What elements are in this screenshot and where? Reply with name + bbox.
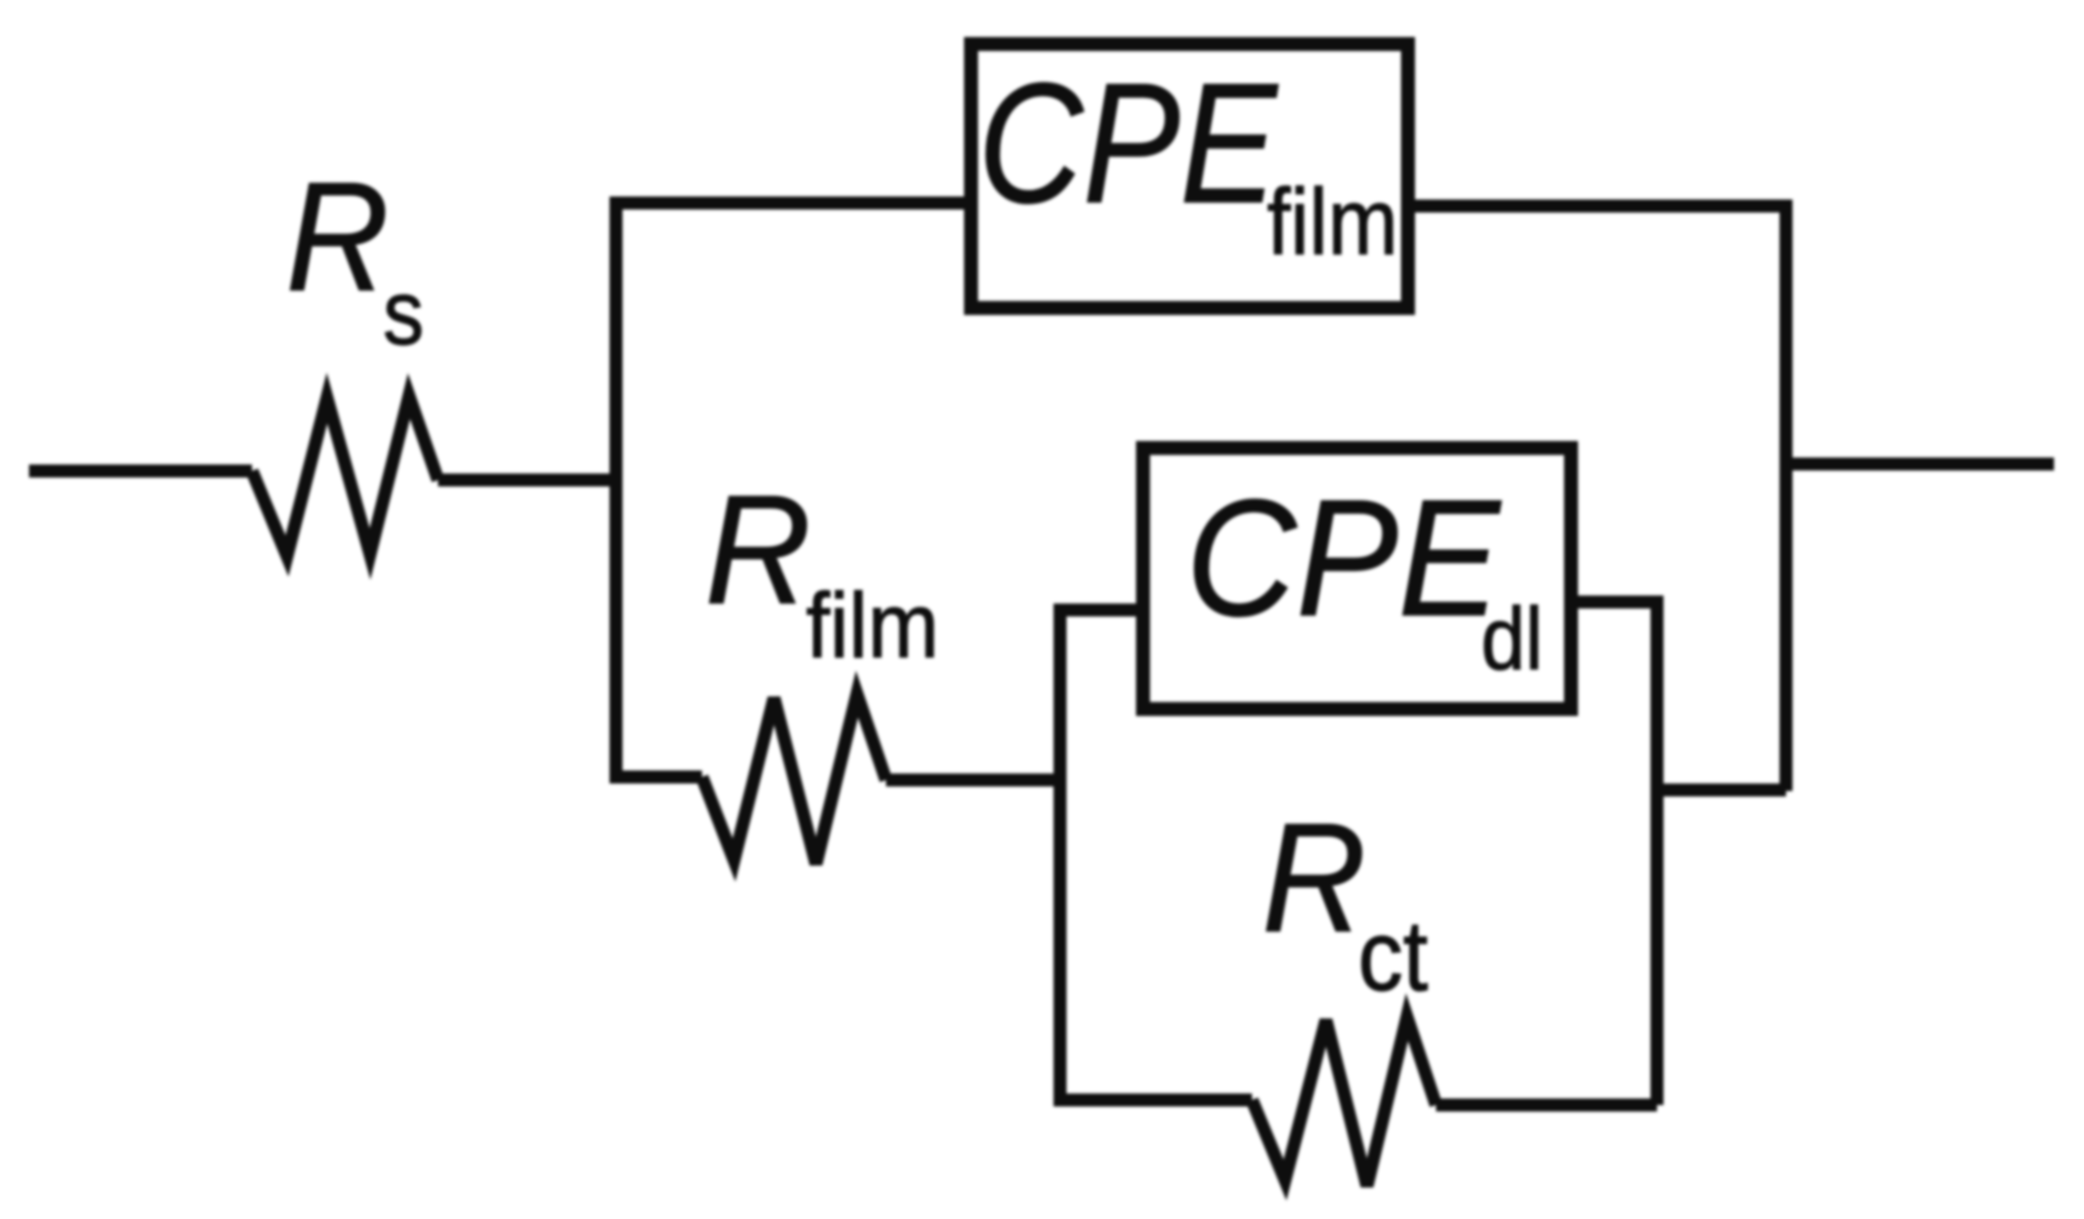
- wire node A left vertical with top and bottom branch stubs: [616, 203, 972, 777]
- resistor R3 Rct zigzag: [1252, 1017, 1436, 1186]
- svg-text:R: R: [705, 463, 811, 636]
- wire CPEdl right to inner right vertical: [1570, 602, 1657, 1105]
- svg-text:CPE: CPE: [978, 48, 1279, 239]
- svg-text:dl: dl: [1481, 589, 1543, 688]
- svg-text:film: film: [806, 575, 939, 677]
- resistor R1 Rs zigzag: [252, 396, 438, 556]
- wire output lead: [1786, 458, 2054, 471]
- svg-text:R: R: [286, 150, 389, 323]
- resistor R2 Rfilm zigzag: [702, 694, 886, 864]
- wire CPEfilm right to outer right vertical: [1408, 206, 1786, 791]
- wire Rfilm to inner node B: [886, 774, 1062, 787]
- wire left lead: [29, 465, 252, 478]
- capacitor CPE_dl box: [1143, 448, 1571, 709]
- wire Rs to node A: [438, 474, 622, 487]
- svg-text:film: film: [1267, 169, 1398, 274]
- svg-text:s: s: [383, 262, 424, 364]
- wire connector inner to outer right: [1657, 784, 1786, 797]
- svg-text:CPE: CPE: [1186, 466, 1502, 651]
- wire inner left vertical: [1060, 610, 1252, 1100]
- svg-text:R: R: [1262, 791, 1366, 964]
- capacitor CPE_film box: [971, 44, 1408, 308]
- wire Rct to inner right vertical: [1436, 1099, 1657, 1112]
- svg-text:ct: ct: [1358, 900, 1428, 1012]
